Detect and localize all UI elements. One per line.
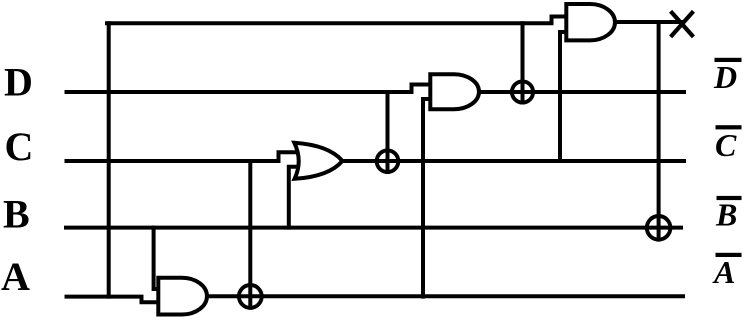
and-gate U2 on D line xyxy=(430,74,479,109)
xor target X1 on A line xyxy=(239,285,262,308)
xor target X2 on D line xyxy=(512,81,533,102)
wire A output line through XOR X1 xyxy=(207,294,684,298)
svg-text:D: D xyxy=(4,60,33,105)
and-gate U1 on A line xyxy=(158,278,207,315)
wire control vertical B to AND U1 top input xyxy=(154,228,159,289)
svg-text:C: C xyxy=(5,124,34,169)
wire control vertical top wire to XOR X2 on D xyxy=(521,23,525,102)
wire top horizontal from vertical riser to AND U3 input jog xyxy=(107,17,567,24)
wire vertical riser from A line to top wire xyxy=(107,23,111,296)
svg-text:D: D xyxy=(713,59,737,95)
or-gate U4 on C line xyxy=(294,143,342,179)
xor target X4 on B line xyxy=(647,216,671,240)
svg-text:A: A xyxy=(1,254,30,299)
wire control vertical AND U2 bottom input to A line xyxy=(423,99,431,297)
wire C input line with jog into OR U4 xyxy=(67,152,302,161)
and-gate U3 top xyxy=(566,4,615,40)
wire U3 output to X mark xyxy=(615,20,684,24)
svg-text:B: B xyxy=(3,192,30,237)
wire C output line through XOR X3 xyxy=(343,159,684,163)
wire B line xyxy=(66,226,681,230)
wire D output line through XOR X2 xyxy=(479,90,684,94)
wire D input line with jog into AND U2 xyxy=(67,85,431,93)
xor target X3 on C line xyxy=(377,150,399,172)
svg-text:C: C xyxy=(715,127,737,163)
wire control vertical C line to XOR X1 on A xyxy=(248,161,252,308)
svg-text:B: B xyxy=(715,197,737,233)
wire control vertical D line to XOR X3 on C xyxy=(386,92,390,172)
wire control vertical OR U4 bottom input to B line xyxy=(289,167,301,228)
wire control vertical AND U3 bottom input to C line xyxy=(560,32,567,161)
svg-text:A: A xyxy=(712,254,735,290)
wire control vertical top output wire to XOR X4 on B xyxy=(657,23,661,239)
wire A input line with jog into AND U1 xyxy=(67,297,159,303)
X mark garbage output xyxy=(672,13,692,36)
